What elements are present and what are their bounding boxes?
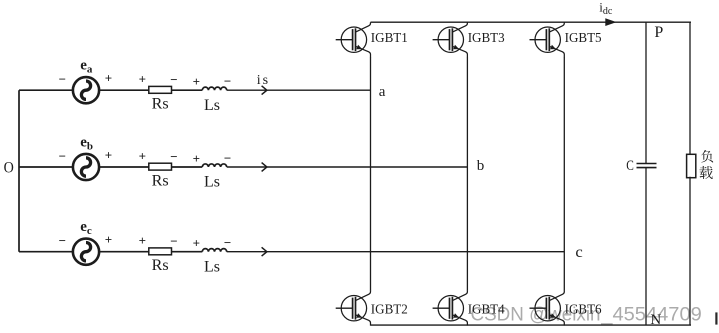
svg-text:is: is (257, 73, 270, 88)
svg-text:+: + (139, 72, 146, 87)
svg-text:Ls: Ls (204, 258, 220, 275)
inductor Ls (phase c) (202, 249, 226, 252)
wire leg phase (IGBT3 emitter to IGBT4 collector) (466, 57, 468, 291)
wire O bus to source eb (19, 166, 74, 168)
wire Ls to node b (227, 166, 468, 168)
svg-text:C: C (626, 158, 634, 174)
voltage source ec (73, 239, 99, 265)
svg-text:+: + (139, 148, 146, 163)
watermark fragment right edge (715, 312, 717, 324)
svg-text:−: − (224, 150, 231, 165)
svg-text:+: + (193, 74, 200, 89)
svg-text:+: + (193, 151, 200, 166)
transistor IGBT3 (433, 22, 468, 57)
inductor Ls (phase a) (202, 87, 226, 90)
current arrow idc (605, 18, 616, 26)
wire source ea to Rs (99, 89, 149, 91)
transistor IGBT4 (433, 291, 468, 326)
svg-text:+: + (105, 232, 112, 247)
svg-text:−: − (59, 148, 66, 163)
svg-text:+: + (193, 236, 200, 251)
svg-text:+: + (105, 71, 112, 86)
svg-text:Rs: Rs (152, 96, 169, 113)
svg-text:IGBT2: IGBT2 (371, 302, 408, 317)
svg-text:IGBT1: IGBT1 (371, 31, 408, 46)
svg-text:+: + (139, 233, 146, 248)
wire O bus to source ec (19, 251, 74, 253)
label zai (load) (699, 166, 712, 179)
svg-text:c: c (575, 244, 583, 261)
transistor IGBT6 (530, 291, 565, 326)
current arrow is (phase a) (262, 86, 267, 95)
wire Rs to Ls (phase a) (172, 89, 203, 91)
svg-text:−: − (170, 72, 177, 87)
svg-text:IGBT5: IGBT5 (565, 31, 602, 46)
current arrow is (phase b) (262, 163, 267, 172)
wire O bus (left vertical) (18, 90, 20, 252)
svg-text:−: − (59, 233, 66, 248)
wire leg phase (IGBT1 emitter to IGBT2 collector) (370, 57, 372, 291)
svg-text:−: − (224, 235, 231, 250)
current arrow is (phase c) (262, 247, 267, 256)
wire O bus to source ea (19, 89, 74, 91)
voltage source eb (73, 154, 99, 180)
svg-text:Ls: Ls (204, 174, 220, 191)
svg-text:−: − (59, 72, 66, 87)
wire Ls to node a (227, 89, 371, 91)
resistor Rs (phase b) (149, 163, 172, 170)
transistor IGBT2 (336, 291, 371, 326)
wire load branch upper (689, 22, 691, 154)
wire capacitor branch lower (645, 168, 647, 326)
wire source ec to Rs (99, 251, 149, 253)
svg-text:P: P (654, 24, 663, 41)
resistor Rs (phase c) (149, 248, 172, 255)
svg-text:IGBT4: IGBT4 (468, 302, 505, 317)
svg-text:Ls: Ls (204, 97, 220, 114)
svg-text:Rs: Rs (152, 172, 169, 189)
svg-text:b: b (477, 158, 485, 174)
svg-text:Rs: Rs (152, 257, 169, 274)
inductor Ls (phase b) (202, 164, 226, 167)
svg-text:a: a (379, 84, 386, 100)
wire leg phase (IGBT5 emitter to IGBT6 collector) (563, 57, 565, 291)
svg-text:IGBT6: IGBT6 (565, 302, 602, 317)
svg-text:+: + (105, 147, 112, 162)
resistor Rs (phase a) (149, 86, 172, 93)
wire top bus P rail (371, 21, 692, 23)
svg-text:−: − (170, 149, 177, 164)
wire Rs to Ls (phase b) (172, 166, 203, 168)
transistor IGBT5 (530, 22, 565, 57)
capacitor C (637, 164, 657, 168)
wire Ls to node c (227, 251, 565, 253)
svg-text:−: − (224, 74, 231, 89)
wire bottom bus N rail (371, 324, 692, 326)
wire capacitor branch upper (645, 22, 647, 163)
svg-text:O: O (4, 160, 14, 177)
svg-text:−: − (170, 234, 177, 249)
transistor IGBT1 (336, 22, 371, 57)
wire Rs to Ls (phase c) (172, 251, 203, 253)
load resistor (fuzai) (687, 154, 696, 177)
label fu (load) (701, 150, 713, 163)
voltage source ea (73, 77, 99, 103)
wire load branch lower (689, 177, 691, 325)
svg-text:N: N (650, 312, 661, 328)
wire source eb to Rs (99, 166, 149, 168)
svg-text:IGBT3: IGBT3 (468, 31, 505, 46)
